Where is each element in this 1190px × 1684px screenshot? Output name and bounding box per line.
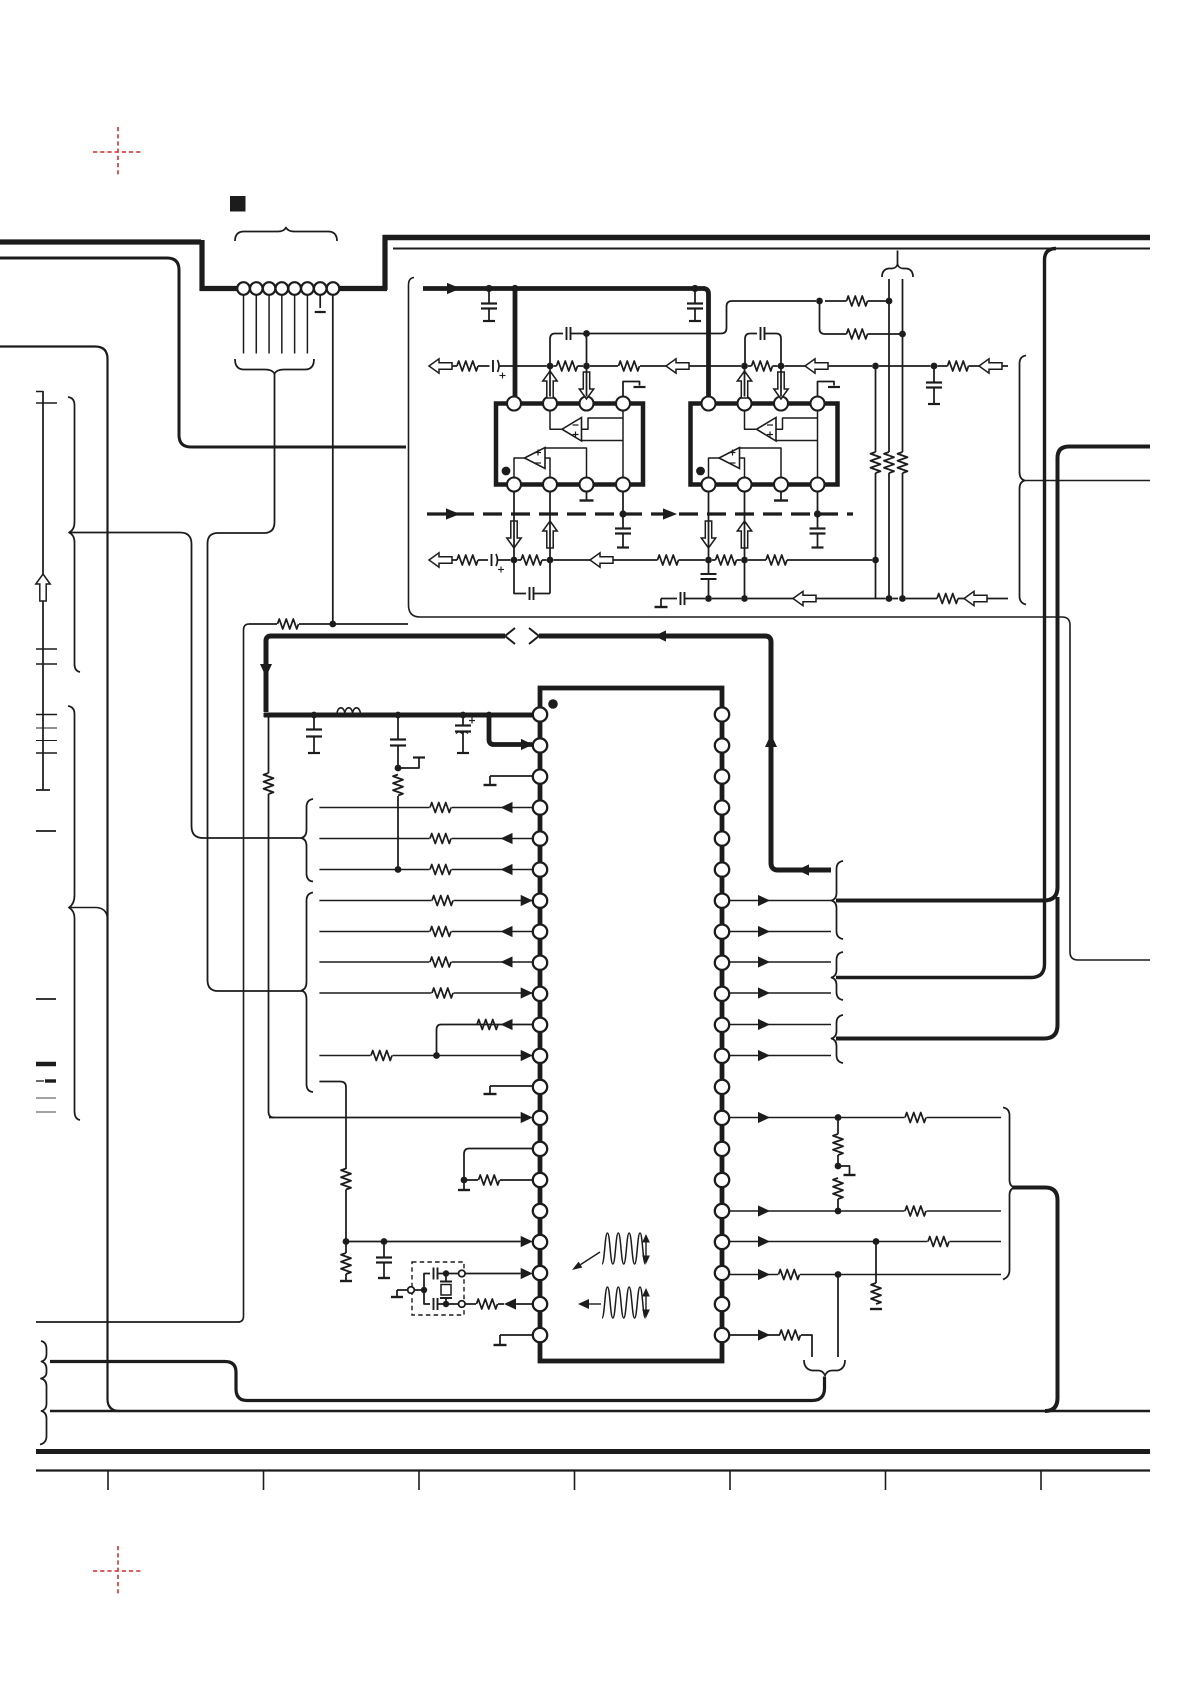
wire U1 pin14 row (269, 1117, 521, 1119)
wire U1 pin6 row (319, 869, 532, 871)
junction rail (311, 712, 318, 719)
waveform sine 2 (602, 1287, 645, 1318)
junction y560 pin1B (511, 557, 518, 564)
wire link IC3 pin2B (534, 560, 550, 594)
junction y560 end at x875 (872, 557, 879, 564)
wire x902 mid (902, 334, 904, 452)
wire U1 pin12 row (319, 1055, 532, 1057)
junction rail (460, 712, 467, 719)
wire IC4 feedback loop right (765, 334, 781, 364)
brace BB below U1 (804, 1360, 845, 1376)
junction y598 x889 (886, 595, 893, 602)
junction pin18R (873, 1238, 880, 1245)
wire IC3 pin4 vertical (622, 412, 624, 478)
arrowhead signal out (758, 895, 770, 906)
ground below C4 (378, 1277, 390, 1279)
arrowhead out of U1 (501, 833, 513, 844)
wire x875 drop lower (875, 473, 877, 599)
wire stub to tick (398, 758, 419, 768)
double arrow waveform 1 (645, 1240, 647, 1258)
wire IC4B loop to pin3 bottom (740, 448, 782, 478)
wire bottom rule (36, 1469, 1150, 1471)
terminal tick C3 (457, 752, 469, 754)
arrow down into IC4 pin3 (774, 372, 788, 399)
resistor R10 (833, 1178, 843, 1199)
wire IC3 feedback loop right (571, 334, 587, 364)
wire x268 down to row p14 (268, 794, 270, 1112)
arrowhead dashed bus mid (663, 508, 677, 519)
wire thick bottom bus (36, 1449, 1150, 1454)
arrowhead into U1 (521, 1050, 533, 1061)
wire R14 to x902 (868, 333, 903, 335)
capacitor C8 lead (694, 291, 696, 303)
wire IC3 pin1B down (513, 492, 515, 561)
arrowhead signal out (758, 1205, 770, 1216)
resistor R27 (937, 594, 958, 604)
wire signal y560 (452, 559, 457, 561)
wire IC4 pin2B down (744, 492, 746, 561)
wire feeder to pin18 node (319, 1082, 346, 1170)
wire U1 pin10 row (319, 992, 532, 994)
wire thick from brace R1 up x1058 to edge y446 (836, 447, 1150, 901)
arrowhead signal out (758, 1269, 770, 1280)
terminal X1 common (408, 1287, 415, 1294)
wire IC3A input loop bottom (582, 440, 624, 442)
wire connector pin 3 lead (268, 295, 270, 354)
wire IC4 pin3 to y366 (780, 366, 782, 397)
wire IC3 pin3B stub (586, 492, 588, 500)
wire IC4B output to pin1 bottom (709, 458, 720, 478)
junction supply (485, 285, 492, 292)
wire IC4 pin2 to y366 (744, 366, 746, 397)
arrowhead annotation 1 (572, 1262, 582, 1270)
wire divider step down (820, 301, 847, 334)
junction x902 (899, 331, 906, 338)
brace R3 (832, 1015, 844, 1063)
arrowhead on wire y870 (797, 864, 809, 875)
wire ladder bottom foot (36, 789, 50, 791)
wire U1 pin8 row (319, 931, 532, 933)
wire U1 pin18R row (729, 1241, 1001, 1243)
resistor R19 (619, 361, 640, 371)
wire IC3B to pin2 bottom (545, 458, 550, 478)
wire U1 pin15 bend down (464, 1149, 532, 1181)
terminal tick C12 (928, 403, 940, 405)
wire feeder from left edge down at x179 to op-amp section (0, 258, 406, 447)
op-amp IC4B triangle (719, 448, 740, 469)
capacitor C2 lead (397, 718, 399, 739)
junction y560 IC4 pin2B (741, 557, 748, 564)
terminal tick C14 (812, 546, 824, 548)
resistor R12 (780, 1330, 801, 1340)
junction y366 IC3 pin2 (547, 363, 554, 370)
wire IC4 pin1B down (708, 492, 710, 561)
resistor R23 (521, 555, 542, 565)
wire thick from brace R4 down x1058 to bottom rail (1013, 1188, 1058, 1412)
wire x268 down (268, 717, 270, 773)
tick stub y999 (36, 998, 56, 1000)
wire thick link rail to IC3 pin 2 (489, 713, 532, 745)
ground U1 pin21 (494, 1344, 507, 1346)
brace L2 left group (68, 706, 80, 1120)
arrowhead out of U1 pin11 (501, 1019, 513, 1030)
bar thick y1064 (36, 1062, 56, 1066)
tick ladder y740 (36, 740, 57, 742)
ground divider (844, 1174, 856, 1176)
registration cross top-left (93, 127, 143, 177)
wire stub IC4 pin4 top (818, 382, 835, 397)
wire thick bus y636 left part (266, 636, 505, 712)
inductor L1 (337, 708, 360, 714)
op-amp IC3B triangle (525, 448, 546, 469)
brace TR supply pair (882, 265, 913, 278)
wire node A right segment (299, 623, 408, 625)
capacitor C9 feedback IC3 (566, 327, 568, 340)
arrowhead signal out (758, 1019, 770, 1030)
resistor R20 (752, 361, 773, 371)
crystal resonator element (445, 1276, 447, 1281)
wire y1411 rail (50, 1410, 1150, 1412)
wire IC4A input loop top (776, 418, 818, 429)
junction feedback IC3 (583, 330, 590, 337)
junction dashed bus IC4 pin4 (814, 510, 821, 517)
capacitor C3 polarized lead (462, 718, 464, 725)
wire U1 pin7R row (729, 900, 831, 902)
junction C2/R2 (395, 765, 402, 772)
arrowhead out of U1 pin20 (504, 1298, 516, 1309)
wire riser x243 down to y1322 rail (36, 624, 249, 1322)
wire bend down to bottom brace (801, 1335, 812, 1357)
arrow up into IC3 pin2 (543, 371, 557, 398)
brace BL bottom left (40, 1341, 47, 1445)
junction pin19R (835, 1271, 842, 1278)
ground U1 pin3 (484, 784, 497, 786)
junction pin17R (835, 1208, 842, 1215)
break mark left (505, 628, 515, 644)
capacitor C6 (433, 1298, 435, 1310)
wire IC4A input loop bottom (776, 440, 818, 442)
wire IC3 pin3 to y366 (586, 366, 588, 397)
bracket R0 op-amp section right (1020, 356, 1027, 605)
wire X1 lower branch (424, 1290, 430, 1304)
wire x889 lower (888, 473, 890, 599)
wire from brace L1 cusp down to brace P1 cusp (69, 533, 302, 839)
resistor R4 (477, 1020, 498, 1030)
wire IC4 pin2B down (744, 560, 746, 599)
wire IC3 pin4B to bus (622, 492, 624, 515)
wire dashed bus y514 (427, 512, 853, 515)
arrow signal up on ladder (36, 574, 50, 601)
op-amp IC3 pins (507, 397, 521, 411)
wire supply bus corner down to IC4 pin1 (703, 289, 709, 398)
wire IC4 pin4B to bus (817, 492, 819, 515)
junction y366 x875 drop (872, 363, 879, 370)
wire U1 pin18 row (346, 1241, 521, 1243)
brace P2 rows 7-12 (302, 893, 314, 1093)
arrowhead down on x266 drop (260, 664, 272, 677)
resistor R25 (716, 555, 737, 565)
junction X1 lower (443, 1301, 449, 1307)
pin-1 marker IC3 (502, 467, 511, 476)
wire down to bottom brace (837, 1275, 839, 1358)
wire thick supply bus y288 (423, 286, 705, 291)
wire connector pin 1 lead (243, 295, 245, 354)
wire IC4B to pin2 bottom (740, 458, 745, 478)
wire connector pin 5 lead (294, 295, 296, 354)
resistor R9 (833, 1134, 843, 1155)
junction y560 pin2B (547, 557, 554, 564)
wire U1 pin7 row (319, 900, 532, 902)
pin-1 marker U1 (548, 699, 558, 709)
tick ladder y649 (36, 648, 57, 650)
capacitor C17 (701, 573, 717, 575)
plus sign C3 (469, 718, 475, 724)
terminal tick C7 (483, 320, 495, 322)
junction divider (835, 1163, 842, 1170)
wire thick top bus left segment (0, 239, 201, 244)
op-amp IC4 body (691, 404, 838, 485)
resistor R15 (884, 452, 894, 473)
arrowhead signal out (758, 1112, 770, 1123)
wire thick top bus right segment (383, 235, 1150, 241)
arrow right left y366 (805, 359, 828, 373)
annotation arrow to pin19 (581, 1252, 601, 1265)
wire op-amp section boundary bracket (409, 278, 1151, 961)
node A junction (329, 621, 336, 628)
junction x889 (886, 298, 893, 305)
IC U1 right pins (715, 707, 729, 721)
double arrow waveform 2 (645, 1294, 647, 1312)
resistor R6 (341, 1169, 351, 1190)
wire X1 upper branch (424, 1274, 430, 1291)
wire y598 (661, 598, 677, 600)
junction y366 IC3 pin3 (583, 363, 590, 370)
junction y598 IC4 pin2B (741, 595, 748, 602)
capacitor C10 feedback IC4 (760, 327, 762, 340)
resistor R21 (948, 361, 969, 371)
wire U1 pin8R row (729, 931, 831, 933)
wire bus to connector (200, 286, 239, 291)
arrowhead signal out (758, 926, 770, 937)
bar right y1081 (45, 1079, 56, 1082)
arrowhead out of U1 (501, 956, 513, 967)
wire stub IC3 pin4 top (623, 382, 640, 397)
capacitor C14 lead (817, 514, 819, 528)
resistor R1 (278, 619, 299, 629)
wire connector pin 2 lead (255, 295, 257, 354)
bar y1098 (36, 1097, 56, 1099)
tick ladder y391 (36, 391, 43, 393)
wire IC3B output to pin1 bottom (514, 458, 525, 478)
wire x902 upper (902, 279, 904, 334)
ground IC3 pin3B (580, 499, 594, 501)
tick stub y831 (36, 830, 56, 832)
junction pin15/pin16 (461, 1177, 468, 1184)
wire thick rail y715 (264, 713, 534, 718)
wire signal y366 (452, 365, 457, 367)
wire IC4 pin3B stub (780, 492, 782, 500)
resistor R3 (264, 773, 274, 794)
ground IC4 pin3B (774, 499, 788, 501)
capacitor C18 series (680, 592, 682, 605)
wire U1 pin11R row (729, 1024, 831, 1026)
arrowhead up on x771 drop (765, 734, 777, 747)
ticks on bottom rule (107, 1471, 109, 1491)
arrow off-page left y560 (429, 553, 452, 567)
wire U1 pin21 to ground (500, 1334, 532, 1336)
resistor R14 (847, 329, 868, 339)
wire thick drop to IC3 pin1 (513, 289, 518, 398)
arrowhead into U1 (521, 987, 533, 998)
junction y598 x902 (899, 595, 906, 602)
terminal tick stub (413, 756, 425, 758)
op-amp IC3A triangle (562, 418, 582, 442)
wire connector pin 4 lead (281, 295, 283, 354)
ground X1 (391, 1296, 403, 1298)
wire thin top line (393, 248, 1150, 250)
arrow mid left y366 (666, 359, 689, 373)
junction y598 IC4 pin1B (705, 595, 712, 602)
junction y366 IC4 pin2 (741, 363, 748, 370)
wire brace TR stem to top line (897, 251, 899, 265)
arrow off-page y598 (964, 591, 987, 605)
resistor R11 (871, 1283, 881, 1304)
junction cap C4 (381, 1238, 388, 1245)
wire U1 pin9 row (319, 961, 532, 963)
wire IC4 pin4 vertical (817, 412, 819, 478)
terminal X1 out2 (459, 1301, 466, 1308)
wire U1 pin14R row (729, 1117, 1001, 1119)
resistor R8 (477, 1299, 498, 1309)
wire U1 pin12R row (729, 1055, 831, 1057)
wire stub to ground (838, 1166, 850, 1174)
wire bus from connector (338, 286, 387, 291)
arrow up into IC3 pin2B (543, 521, 557, 548)
wire y1322 left rail (36, 1321, 240, 1323)
capacitor C4 lead (383, 1242, 385, 1258)
wire U1 pin3 to ground (490, 775, 532, 777)
wire connector pin 6 lead (306, 295, 308, 354)
junction rail (395, 712, 402, 719)
wire IC3 feedback loop left (550, 334, 563, 364)
arrowhead out of U1 (501, 802, 513, 813)
wire node A left segment (249, 623, 277, 625)
arrowhead signal out (758, 1236, 770, 1247)
wire U1 pin9R row (729, 961, 831, 963)
arrow mid y560 (590, 553, 613, 567)
ground connector pin 7 (315, 311, 326, 313)
wire U1 pin16 row (464, 1179, 532, 1181)
arrow mid y598 (793, 591, 816, 605)
wire divider chain (837, 1118, 839, 1135)
wire IC3 pin2B down (549, 492, 551, 561)
resistor R2 (393, 775, 403, 796)
junction supply (691, 285, 698, 292)
tick ladder y714 (36, 714, 57, 716)
capacitor C13 lead (622, 514, 624, 528)
brace P1 rows 4-6 (302, 799, 314, 882)
wire to ground (463, 1180, 465, 1189)
wire R13 to x889 (868, 300, 890, 302)
arrowhead out of U1 (501, 926, 513, 937)
wire U1 pin19 row (466, 1273, 521, 1275)
wire x902 lower (902, 473, 904, 599)
wire IC3B loop to pin3 bottom (545, 448, 587, 478)
wire x889 upper (888, 279, 890, 301)
brace below connector leads (235, 359, 314, 374)
wire thick from brace R2 up x1045 to top line (836, 249, 1056, 978)
break mark right (529, 628, 539, 644)
arrow up into IC4 pin2B (737, 521, 751, 548)
capacitor C15 polarized series (491, 554, 493, 566)
wire thick from x1058 down to brace R3 (836, 897, 1058, 1039)
junction X1 upper (443, 1270, 449, 1276)
ground at pin16 node (458, 1189, 470, 1191)
crystal X1 dashed module box (412, 1262, 464, 1315)
resistor R26 (766, 555, 787, 565)
wire R2 down to row (397, 796, 399, 870)
arrow off-page left y366 (429, 359, 452, 373)
wire x889 mid (888, 301, 890, 452)
junction y366 cap C12 (931, 363, 938, 370)
terminal X1 out1 (459, 1270, 466, 1277)
wire U1 pin5 row (319, 838, 532, 840)
wire brace L2 cusp join to x108 feeder (69, 908, 108, 920)
wire U1 pin13 to ground (490, 1085, 532, 1087)
resistor R24 (658, 555, 679, 565)
wire U1 pin17R row (729, 1210, 1001, 1212)
op-amp IC4A triangle (757, 418, 777, 442)
brace L1 left group (68, 397, 80, 672)
capacitor C16 link IC3 (529, 587, 531, 600)
resistor R17 (457, 361, 478, 371)
arrowhead annotation 2 (578, 1299, 589, 1309)
wire IC4A output to pin2 (745, 412, 757, 430)
arrowhead into U1 pin18 (521, 1236, 533, 1247)
resistor R22 (457, 555, 478, 565)
arrow down into IC3 pin3 (579, 372, 593, 399)
junction R2 on pin6 row (395, 866, 402, 873)
wire IC3A output to pin2 (550, 412, 562, 430)
arrowhead signal out (758, 956, 770, 967)
brace above connector CN1 (235, 228, 337, 242)
bar y1112 (36, 1111, 56, 1113)
terminal below R11 (870, 1308, 882, 1310)
junction y560 IC4 pin1B (705, 557, 712, 564)
op-amp IC3 body (496, 404, 643, 485)
resistor R5 (479, 1175, 500, 1185)
wire IC3A input loop top (582, 418, 624, 429)
resistor R18 (557, 361, 578, 371)
registration cross bottom-left (93, 1546, 143, 1596)
brace R4 (1003, 1108, 1015, 1280)
arrowhead into U1 (521, 895, 533, 906)
brace R1 (832, 861, 844, 939)
junction rail (486, 712, 493, 719)
arrowhead signal out (758, 987, 770, 998)
ground U1 pin13 (484, 1093, 497, 1095)
junction dashed bus IC3 pin4 (619, 510, 626, 517)
capacitor C12 lead (933, 369, 935, 382)
resistor R28 (871, 452, 881, 473)
IC U1 left pins (533, 707, 547, 721)
arrowhead into U1 pin19 (521, 1268, 533, 1279)
arrow off-page y366 right (979, 359, 1002, 373)
waveform sine 1 (602, 1233, 645, 1264)
wire connector pin 7 lead (319, 295, 321, 308)
wire U1 pin20 row (466, 1303, 477, 1305)
arrowhead on bus y636 (654, 630, 666, 641)
